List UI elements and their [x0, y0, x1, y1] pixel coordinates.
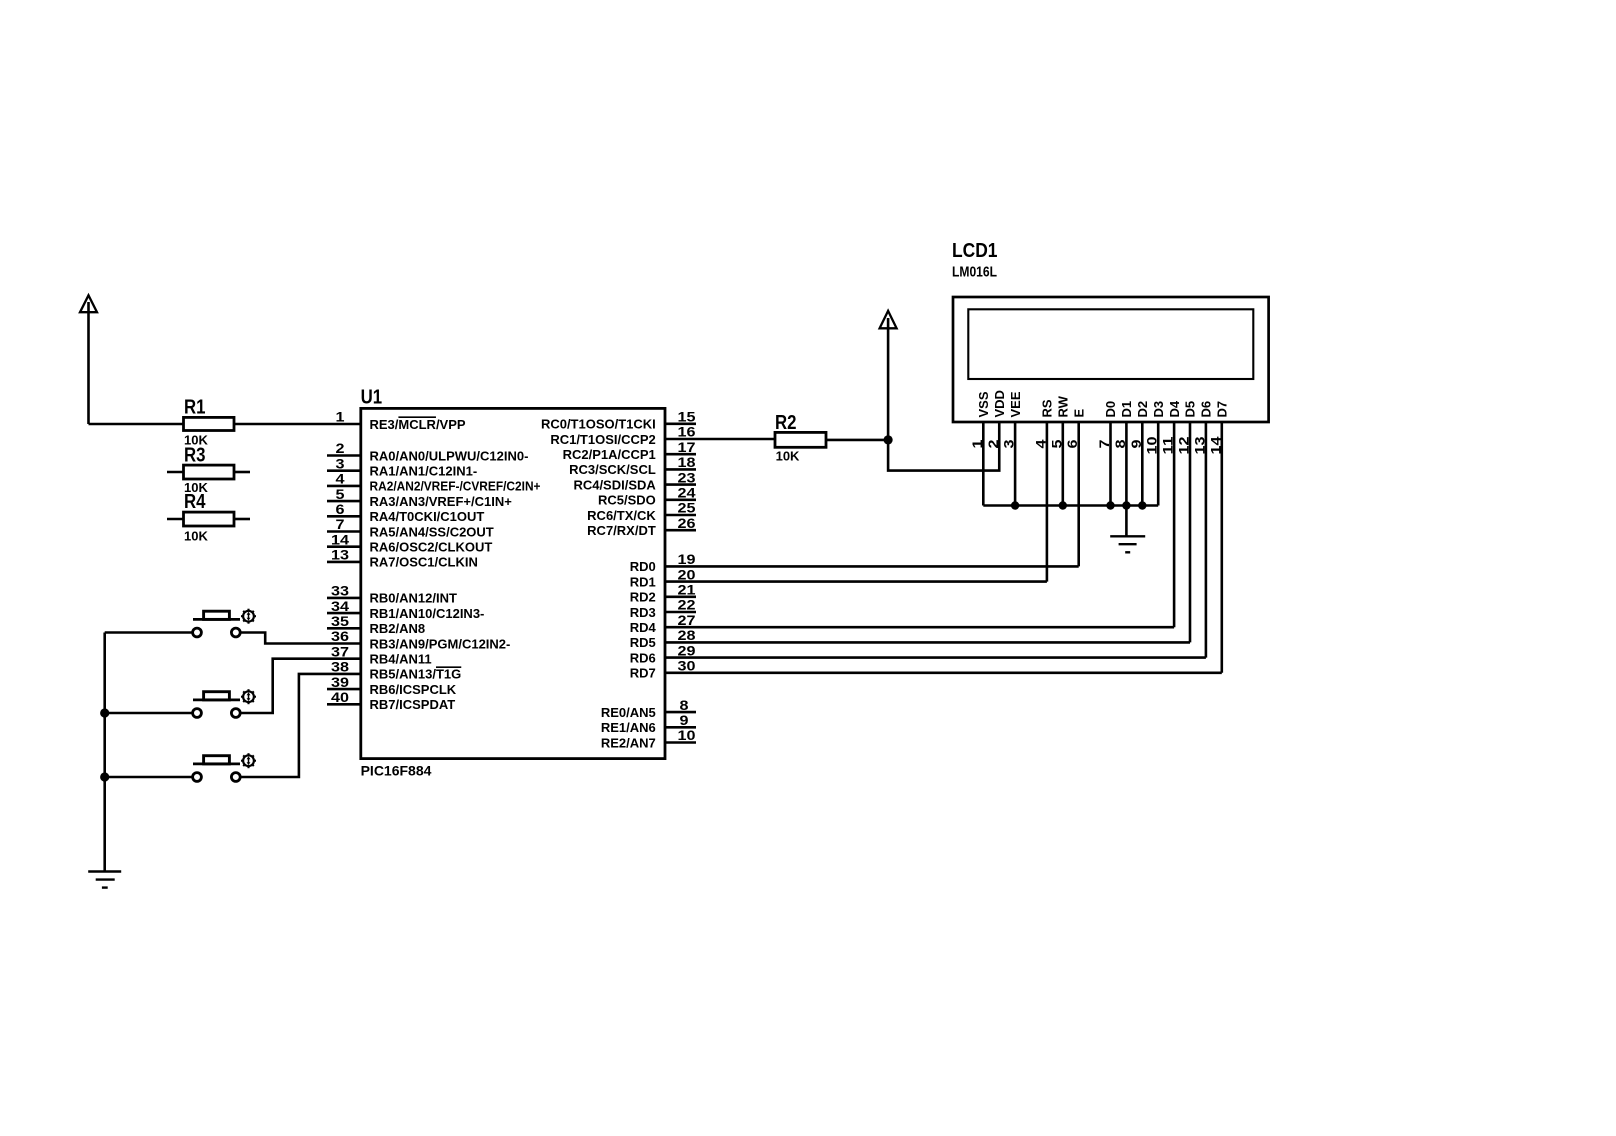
svg-text:RE3/MCLR/VPP: RE3/MCLR/VPP: [370, 417, 466, 432]
resistor R2: [775, 412, 826, 464]
U1 pin 15 RC0/T1OSO/T1CKI: [541, 409, 696, 432]
svg-text:4: 4: [1032, 439, 1048, 448]
LCD1 pin 13 D6: [1191, 401, 1213, 658]
LCD1 pin 8 D1: [1112, 401, 1134, 506]
U1 pin 6 RA4/T0CKI/C1OUT: [327, 501, 484, 524]
svg-text:9: 9: [680, 712, 689, 728]
wire S2 left to rail: [105, 712, 193, 715]
svg-text:24: 24: [678, 485, 696, 501]
svg-text:D1: D1: [1119, 401, 1134, 418]
svg-text:D4: D4: [1167, 400, 1182, 417]
svg-text:E: E: [1071, 409, 1086, 418]
svg-text:D5: D5: [1183, 401, 1198, 418]
ground bus under LCD: [983, 504, 1158, 507]
LCD1 pin 1 VSS: [969, 391, 991, 505]
svg-text:RB3/AN9/PGM/C12IN2-: RB3/AN9/PGM/C12IN2-: [370, 636, 511, 651]
svg-text:RA5/AN4/SS/C2OUT: RA5/AN4/SS/C2OUT: [370, 524, 494, 539]
junction dot VCC/R2: [884, 435, 893, 444]
svg-text:28: 28: [678, 627, 696, 643]
svg-text:RD7: RD7: [630, 666, 656, 681]
push button S2: [193, 689, 256, 717]
junction dot RW/gnd bus: [1059, 501, 1067, 509]
U1 pin 18 RC3/SCK/SCL: [569, 454, 696, 477]
power symbol VCC #1 (arrow up): [80, 295, 97, 424]
svg-text:6: 6: [336, 501, 345, 517]
svg-text:10: 10: [678, 727, 696, 743]
U1 pin 9 RE1/AN6: [601, 712, 696, 735]
svg-text:23: 23: [678, 469, 696, 485]
svg-text:RS: RS: [1040, 399, 1055, 417]
svg-text:3: 3: [336, 455, 345, 471]
svg-text:10: 10: [1144, 436, 1160, 454]
U1 pin 28 RD5: [630, 627, 1190, 650]
svg-text:10K: 10K: [776, 449, 800, 464]
svg-text:6: 6: [1064, 439, 1080, 448]
svg-text:5: 5: [1048, 439, 1064, 448]
LCD1 pin 9 D2: [1128, 401, 1150, 506]
svg-text:11: 11: [1160, 436, 1176, 454]
svg-text:RB1/AN10/C12IN3-: RB1/AN10/C12IN3-: [370, 606, 485, 621]
svg-text:RB0/AN12/INT: RB0/AN12/INT: [370, 591, 457, 606]
svg-text:40: 40: [331, 689, 349, 705]
U1 pin 39 RB6/ICSPCLK: [327, 674, 457, 697]
svg-text:13: 13: [1191, 436, 1207, 454]
U1 pin 37 RB4/AN11: [331, 643, 432, 666]
svg-text:RD0: RD0: [630, 559, 656, 574]
svg-text:39: 39: [331, 674, 349, 690]
svg-text:D2: D2: [1135, 401, 1150, 418]
svg-text:RA7/OSC1/CLKIN: RA7/OSC1/CLKIN: [370, 555, 478, 570]
U1 pin 24 RC5/SDO: [598, 485, 696, 508]
svg-text:36: 36: [331, 628, 349, 644]
svg-text:14: 14: [331, 531, 349, 547]
svg-text:RA0/AN0/ULPWU/C12IN0-: RA0/AN0/ULPWU/C12IN0-: [370, 448, 529, 463]
svg-text:25: 25: [678, 500, 696, 516]
junction dot rail/S2: [100, 708, 109, 717]
svg-text:8: 8: [1112, 439, 1128, 448]
U1 pin 33 RB0/AN12/INT: [327, 583, 457, 606]
LCD1 pin 7 D0: [1096, 401, 1118, 506]
svg-text:1: 1: [969, 439, 985, 448]
svg-text:RE1/AN6: RE1/AN6: [601, 720, 656, 735]
LCD1 pin 11 D4: [1160, 400, 1182, 627]
U1 pin 1 RE3/MCLR/VPP: [336, 409, 466, 432]
svg-text:8: 8: [680, 697, 689, 713]
U1 pin 35 RB2/AN8: [327, 613, 425, 636]
resistor R1: [184, 397, 235, 448]
wire R1 to U1 pin 1: [234, 423, 361, 426]
U1 pin 29 RD6: [630, 642, 1206, 665]
svg-text:LM016L: LM016L: [952, 264, 997, 281]
svg-text:27: 27: [678, 612, 696, 628]
svg-text:21: 21: [678, 582, 696, 598]
wire S3 left to rail: [105, 776, 193, 779]
svg-text:9: 9: [1128, 439, 1144, 448]
U1 pin 27 RD4: [630, 612, 1174, 635]
svg-text:RB6/ICSPCLK: RB6/ICSPCLK: [370, 682, 457, 697]
wire S1 right to U1 pin 36: [240, 633, 361, 644]
svg-text:RA1/AN1/C12IN1-: RA1/AN1/C12IN1-: [370, 464, 478, 479]
U1 pin 3 RA1/AN1/C12IN1-: [327, 455, 477, 478]
op U1 box (PIC16F884 microcontroller): [361, 387, 665, 779]
svg-text:VDD: VDD: [992, 390, 1007, 417]
svg-text:2: 2: [985, 439, 1001, 448]
LCD1 pin 12 D5: [1176, 401, 1198, 643]
junction dot D2/gnd bus: [1138, 501, 1146, 509]
svg-text:26: 26: [678, 515, 696, 531]
svg-text:34: 34: [331, 598, 349, 614]
svg-text:12: 12: [1176, 436, 1192, 454]
svg-text:16: 16: [678, 424, 696, 440]
junction dot D1/gnd bus: [1122, 501, 1130, 509]
svg-text:RC0/T1OSO/T1CKI: RC0/T1OSO/T1CKI: [541, 417, 656, 432]
svg-text:14: 14: [1207, 436, 1223, 454]
svg-text:RC5/SDO: RC5/SDO: [598, 493, 656, 508]
U1 pin 20 RD1: [630, 566, 1047, 589]
U1 pin 38 RB5/AN13/T1G: [331, 659, 461, 682]
ground symbol (left): [88, 872, 121, 888]
svg-text:29: 29: [678, 642, 696, 658]
svg-text:7: 7: [1096, 439, 1112, 448]
junction dot D0/gnd bus: [1106, 501, 1114, 509]
U1 pin 4 RA2/AN2/VREF-/CVREF/C2IN+: [327, 471, 541, 494]
svg-text:LCD1: LCD1: [952, 240, 998, 262]
svg-text:RC7/RX/DT: RC7/RX/DT: [587, 523, 656, 538]
svg-text:RC3/SCK/SCL: RC3/SCK/SCL: [569, 462, 656, 477]
svg-text:RD3: RD3: [630, 605, 656, 620]
svg-text:1: 1: [336, 409, 345, 425]
ground rail (left): [103, 633, 106, 871]
LCD1 display window: [968, 309, 1253, 379]
svg-text:RA6/OSC2/CLKOUT: RA6/OSC2/CLKOUT: [370, 540, 493, 555]
U1 pin 8 RE0/AN5: [601, 697, 696, 720]
LCD1 pin 14 D7: [1207, 401, 1229, 673]
U1 pin 26 RC7/RX/DT: [587, 515, 696, 538]
U1 pin 30 RD7: [630, 658, 1222, 681]
LCD1 labels: [952, 240, 998, 281]
svg-text:D7: D7: [1215, 401, 1230, 418]
svg-text:22: 22: [678, 597, 696, 613]
U1 pin 16 RC1/T1OSI/CCP2: [550, 424, 775, 447]
U1 pin 14 RA6/OSC2/CLKOUT: [327, 531, 492, 554]
svg-text:13: 13: [331, 547, 349, 563]
ground symbol (LCD): [1110, 536, 1145, 552]
junction dot VEE/gnd bus: [1011, 501, 1019, 509]
svg-text:17: 17: [678, 439, 696, 455]
svg-text:RC4/SDI/SDA: RC4/SDI/SDA: [573, 477, 656, 492]
U1 pin 19 RD0: [630, 551, 1079, 574]
U1 pin 25 RC6/TX/CK: [587, 500, 696, 523]
U1 pin 13 RA7/OSC1/CLKIN: [327, 547, 478, 570]
resistor R4: [167, 491, 250, 543]
LCD1 pin 3 VEE: [1001, 391, 1023, 505]
svg-text:RC6/TX/CK: RC6/TX/CK: [587, 508, 656, 523]
overline T1G: [436, 666, 461, 668]
wire VCC to R1: [89, 423, 184, 426]
svg-text:RB2/AN8: RB2/AN8: [370, 621, 426, 636]
svg-text:38: 38: [331, 659, 349, 675]
LCD1 pin 2 VDD: [985, 390, 1007, 448]
svg-text:RB7/ICSPDAT: RB7/ICSPDAT: [370, 697, 456, 712]
svg-text:RE2/AN7: RE2/AN7: [601, 735, 656, 750]
LCD1 outer box: [953, 297, 1269, 422]
svg-text:RD4: RD4: [630, 620, 657, 635]
svg-text:18: 18: [678, 454, 696, 470]
svg-text:4: 4: [336, 471, 345, 487]
svg-text:R4: R4: [184, 491, 206, 513]
wire S3 right to U1 pin 38: [240, 674, 361, 777]
svg-text:RE0/AN5: RE0/AN5: [601, 705, 656, 720]
U1 pin 17 RC2/P1A/CCP1: [563, 439, 696, 462]
svg-text:RB5/AN13/T1G: RB5/AN13/T1G: [370, 667, 462, 682]
svg-text:3: 3: [1001, 439, 1017, 448]
svg-text:U1: U1: [361, 387, 383, 409]
U1 pin 34 RB1/AN10/C12IN3-: [327, 598, 484, 621]
resistor R3: [167, 444, 250, 495]
U1 pin 23 RC4/SDI/SDA: [573, 469, 696, 492]
svg-text:30: 30: [678, 658, 696, 674]
svg-text:R3: R3: [184, 444, 206, 466]
push button S1: [193, 609, 256, 637]
svg-text:RD2: RD2: [630, 590, 656, 605]
svg-text:10K: 10K: [184, 529, 208, 544]
svg-text:5: 5: [336, 486, 345, 502]
svg-text:PIC16F884: PIC16F884: [361, 762, 432, 778]
svg-text:RA3/AN3/VREF+/C1IN+: RA3/AN3/VREF+/C1IN+: [370, 494, 513, 509]
svg-text:D3: D3: [1151, 401, 1166, 418]
svg-text:R1: R1: [184, 397, 206, 419]
wire R2 to VCC junction: [826, 439, 888, 442]
svg-text:RW: RW: [1056, 395, 1071, 417]
svg-text:R2: R2: [775, 412, 797, 434]
svg-text:RD5: RD5: [630, 635, 656, 650]
svg-text:15: 15: [678, 409, 696, 425]
svg-text:D6: D6: [1199, 401, 1214, 418]
svg-text:35: 35: [331, 613, 349, 629]
overline MCLR: [398, 416, 436, 418]
svg-text:RA4/T0CKI/C1OUT: RA4/T0CKI/C1OUT: [370, 509, 485, 524]
U1 pin 5 RA3/AN3/VREF+/C1IN+: [327, 486, 512, 509]
svg-text:20: 20: [678, 566, 696, 582]
wire VCC junction to LCD VDD: [888, 422, 999, 471]
svg-text:RA2/AN2/VREF-/CVREF/C2IN+: RA2/AN2/VREF-/CVREF/C2IN+: [370, 479, 541, 494]
svg-text:D0: D0: [1103, 401, 1118, 418]
svg-text:VEE: VEE: [1008, 391, 1023, 417]
svg-text:RD6: RD6: [630, 650, 656, 665]
svg-text:VSS: VSS: [976, 391, 991, 417]
LCD1 pin 5 RW: [1048, 395, 1070, 505]
LCD1 pin 10 D3: [1144, 401, 1166, 506]
wire gnd bus to ground: [1125, 506, 1128, 536]
LCD1 pin 4 RS: [1032, 399, 1054, 581]
svg-text:33: 33: [331, 583, 349, 599]
junction dot rail/S3: [100, 772, 109, 781]
U1 pin 36 RB3/AN9/PGM/C12IN2-: [331, 628, 510, 651]
svg-text:RC2/P1A/CCP1: RC2/P1A/CCP1: [563, 447, 656, 462]
svg-text:RD1: RD1: [630, 574, 656, 589]
U1 pin 7 RA5/AN4/SS/C2OUT: [327, 516, 494, 539]
svg-text:2: 2: [336, 440, 345, 456]
LCD1 pin 6 E: [1064, 409, 1086, 567]
U1 pin 2 RA0/AN0/ULPWU/C12IN0-: [327, 440, 528, 463]
svg-text:7: 7: [336, 516, 345, 532]
svg-text:19: 19: [678, 551, 696, 567]
U1 pin 21 RD2: [630, 582, 696, 605]
U1 pin 40 RB7/ICSPDAT: [327, 689, 455, 712]
wire S1 left to rail: [105, 631, 193, 634]
U1 pin 10 RE2/AN7: [601, 727, 696, 750]
svg-text:37: 37: [331, 643, 349, 659]
svg-text:RC1/T1OSI/CCP2: RC1/T1OSI/CCP2: [550, 432, 655, 447]
U1 pin 22 RD3: [630, 597, 696, 620]
push button S3: [193, 753, 256, 781]
svg-text:RB4/AN11: RB4/AN11: [370, 652, 432, 667]
power symbol VCC #2 (arrow up): [880, 311, 897, 440]
wire S2 right to U1 pin 37: [240, 659, 361, 713]
